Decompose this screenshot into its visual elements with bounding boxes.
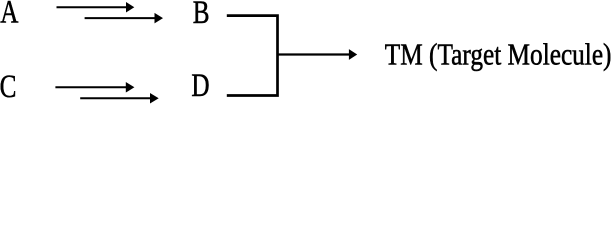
svg-text:A: A [0,0,18,30]
svg-text:TM (Target Molecule): TM (Target Molecule) [385,38,611,72]
svg-text:D: D [191,68,209,104]
svg-text:B: B [193,0,210,31]
svg-text:C: C [0,69,16,105]
